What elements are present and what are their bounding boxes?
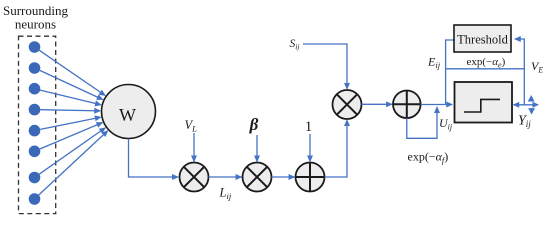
synapse arrow 1	[39, 50, 105, 95]
svg-text:Yij: Yij	[518, 114, 531, 130]
wire: E from threshold box down to U line	[446, 40, 454, 105]
junction arrowhead right (Y_ij out)	[533, 102, 540, 108]
neuron dot 6	[29, 146, 41, 158]
neuron dot 7	[29, 172, 41, 184]
synapse arrow 7	[39, 128, 105, 174]
wire: X1 to X2	[209, 176, 242, 178]
svg-text:exp(−αf): exp(−αf)	[408, 150, 449, 166]
svg-text:β: β	[249, 115, 259, 134]
arrow: V_L into X1	[193, 133, 195, 161]
step function box (pulse generator)	[455, 82, 513, 123]
junction arrowhead down	[528, 108, 535, 115]
synapse arrow 3	[40, 90, 101, 105]
wire: adder2 to step box (U line)	[421, 104, 452, 106]
svg-text:neurons: neurons	[15, 16, 56, 31]
wire: Y output from step box with junction arrows	[514, 95, 540, 115]
feedback loop exp(-alpha_f): U line down, left, up into adder2 bottom	[407, 107, 437, 138]
svg-text:Threshold: Threshold	[457, 33, 508, 47]
svg-text:VE: VE	[531, 59, 543, 75]
threshold decay loop wire: E line right along bottom	[446, 68, 525, 70]
neuron dot 4	[29, 104, 41, 116]
wire: adder1 right and up into multiplier X3	[325, 120, 348, 177]
synapse arrow 5	[40, 117, 100, 129]
multiplier node X3 (S)	[333, 90, 362, 119]
svg-text:Sij: Sij	[290, 38, 300, 51]
svg-text:W: W	[119, 105, 136, 125]
dashed box around surrounding neurons	[19, 36, 56, 213]
svg-text:1: 1	[305, 119, 313, 135]
synapse arrow 8	[39, 131, 108, 195]
wire: S_ij right and down into X3 top	[303, 44, 347, 89]
step function symbol	[464, 99, 500, 112]
neuron dot 3	[29, 83, 41, 95]
synapse arrow 2	[40, 70, 103, 99]
svg-text:VL: VL	[185, 118, 198, 134]
label: Surrounding neurons	[3, 3, 69, 32]
svg-text:Eij: Eij	[427, 55, 441, 71]
multiplier node X2 (beta)	[243, 163, 272, 192]
wire: X3 to adder2	[362, 103, 392, 105]
svg-text:Uij: Uij	[439, 116, 453, 132]
neuron dot 1	[29, 41, 41, 53]
synapse arrow 4	[40, 110, 100, 111]
wire: W output down and right to multiplier X1	[129, 139, 178, 177]
weight kernel circle W	[102, 85, 156, 139]
adder node +1	[296, 163, 325, 192]
junction arrowhead up	[528, 95, 535, 102]
svg-text:exp(−αe): exp(−αe)	[467, 56, 506, 70]
Threshold box	[454, 25, 511, 52]
synapse arrow 6	[40, 123, 103, 149]
neuron dot 5	[29, 125, 41, 137]
arrow: beta into X2	[256, 135, 258, 161]
svg-text:Lij: Lij	[219, 186, 232, 202]
wire: X2 to adder1	[272, 176, 295, 178]
multiplier node X1 (V_L)	[180, 163, 209, 192]
wire: Y/loop vertical up and arrow into threshold right side	[515, 39, 524, 105]
neuron dot 2	[29, 62, 41, 74]
arrow: 1 into adder1	[309, 134, 311, 161]
neuron dot 8	[29, 193, 41, 205]
adder node U (adder2)	[393, 91, 421, 119]
